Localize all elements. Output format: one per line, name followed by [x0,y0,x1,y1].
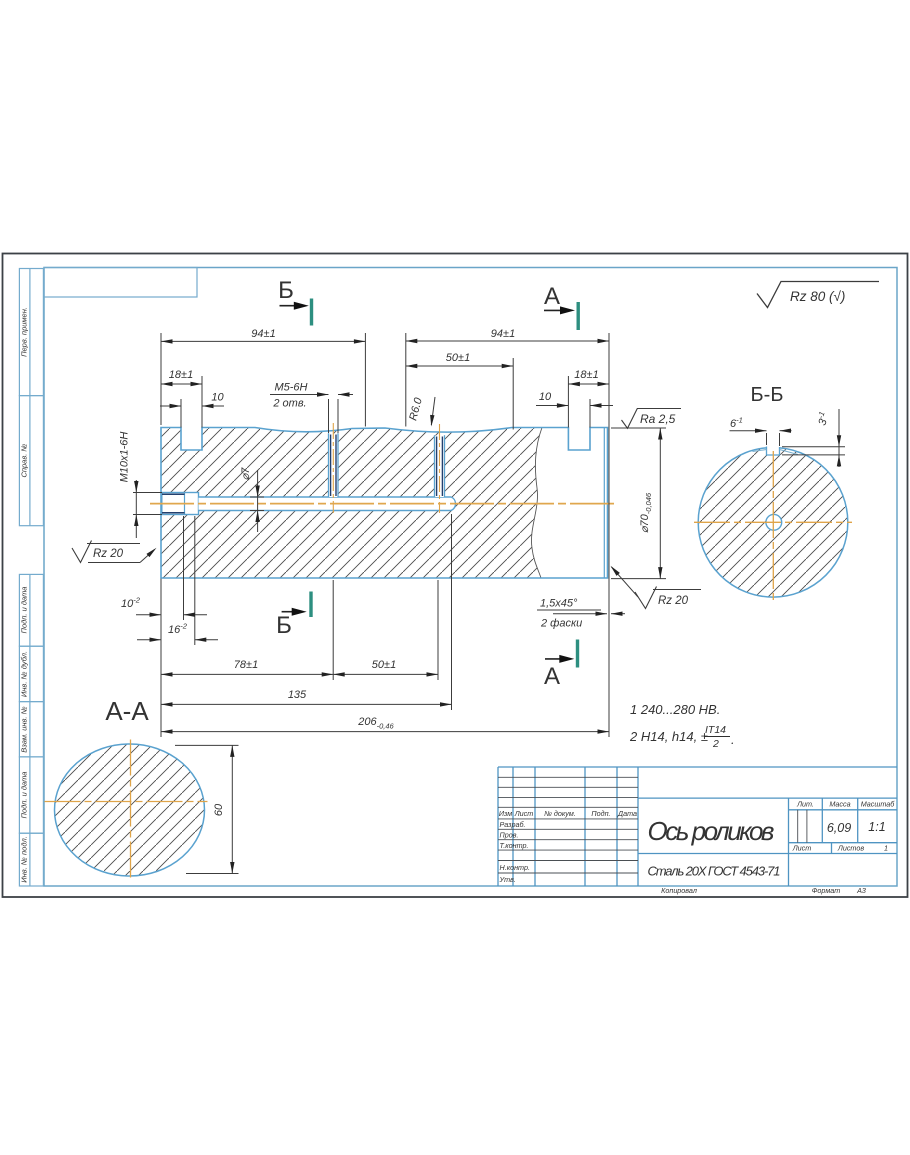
svg-text:Подп. и дата: Подп. и дата [20,772,29,819]
left strip box Справ. № [19,396,43,526]
svg-text:М10х1-6Н: М10х1-6Н [119,432,131,483]
svg-text:2 Н14, h14, ±: 2 Н14, h14, ± [629,729,708,744]
title block grid [498,767,897,886]
svg-text:Н.контр.: Н.контр. [500,863,530,872]
svg-text:Масштаб: Масштаб [861,800,896,809]
svg-text:Масса: Масса [829,800,850,809]
svg-text:135: 135 [288,689,307,701]
svg-text:Rz 80 (√): Rz 80 (√) [790,289,845,304]
svg-text:10: 10 [211,392,224,404]
roughness Rz 20 right [609,564,701,608]
dim 6 [730,409,846,467]
section view А-А [45,696,239,881]
roughness Rz 80 general [757,282,879,308]
roughness Ra 2,5 [622,409,682,429]
dimension arrowheads [134,339,662,734]
section blob [55,744,205,876]
svg-text:2 отв.: 2 отв. [272,398,306,410]
svg-text:А3: А3 [856,886,866,895]
left strip box Подп. и дата (2) [19,757,43,833]
svg-text:.: . [731,732,735,747]
shaft outline [161,428,608,579]
left strip box Подп. и дата (1) [19,574,43,646]
extension lines [160,333,162,425]
svg-text:Подп.: Подп. [591,809,610,818]
axial hole d7 [199,497,456,511]
shaft hatched section [161,428,542,579]
left strip box Инв. № дубл. [19,646,43,701]
svg-text:Б: Б [276,612,292,639]
svg-text:1:1: 1:1 [868,820,885,834]
M5 tapped hole 2 [435,424,445,513]
dimension texts [119,328,654,731]
svg-text:2 фаски: 2 фаски [540,618,582,630]
svg-text:А: А [544,283,560,310]
centerlines [45,801,208,803]
svg-text:Пров.: Пров. [500,831,519,840]
top designation box [44,268,197,298]
svg-text:Инв. № дубл.: Инв. № дубл. [20,651,29,697]
title block small labels [499,800,896,896]
keyway slot [767,445,780,455]
svg-text:Rz 20: Rz 20 [93,548,124,560]
svg-text:78±1: 78±1 [234,659,258,671]
chamfer line right end [603,428,605,579]
svg-text:94±1: 94±1 [491,328,515,340]
main centerline [150,503,614,505]
svg-text:Подп. и дата: Подп. и дата [20,587,29,634]
svg-text:1 240...280 НВ.: 1 240...280 НВ. [630,702,720,717]
svg-text:Т.контр.: Т.контр. [500,841,529,850]
left strip box Перв. примен. [19,269,43,396]
svg-text:Инв. № подл.: Инв. № подл. [20,836,29,883]
svg-text:10: 10 [539,391,552,403]
svg-text:Разраб.: Разраб. [500,820,526,829]
drawing frame [44,268,897,887]
svg-text:Справ. №: Справ. № [20,443,29,477]
left strip box Взам. инв. № [19,702,43,757]
svg-text:Б-Б: Б-Б [751,384,784,406]
section view Б-Б [694,384,852,600]
svg-text:Утв.: Утв. [499,875,516,884]
svg-text:Изм: Изм [499,809,512,818]
svg-text:Взам. инв. №: Взам. инв. № [20,706,29,752]
svg-text:⌀7: ⌀7 [240,467,252,481]
left strip labels [20,307,29,883]
svg-text:Б: Б [278,277,294,304]
svg-text:Rz 20: Rz 20 [658,595,689,607]
svg-text:1: 1 [884,844,888,853]
roughness Rz 20 left [72,541,158,563]
svg-text:1,5х45°: 1,5х45° [540,598,578,610]
section mark А bottom [544,640,578,691]
svg-text:Дата: Дата [617,809,637,818]
svg-text:А: А [544,663,560,690]
section circle [698,448,848,598]
lit cell dividers [797,810,799,843]
svg-text:50±1: 50±1 [446,352,470,364]
M5 tapped hole 1 [329,423,339,513]
svg-text:IT14: IT14 [705,724,726,736]
svg-text:Лит.: Лит. [796,800,814,809]
section mark А top [544,283,578,330]
svg-text:2: 2 [712,738,719,750]
svg-text:50±1: 50±1 [372,659,396,671]
title block row lines [498,777,807,873]
svg-text:Лист: Лист [514,809,534,818]
sheet outer border [3,254,908,898]
svg-text:Копировал: Копировал [661,886,697,895]
svg-text:Лист: Лист [792,844,812,853]
svg-text:№ докум.: № докум. [544,809,576,818]
svg-text:А-А: А-А [105,696,149,726]
svg-text:Ra 2,5: Ra 2,5 [640,412,676,426]
M10 threaded bore [162,493,199,515]
left strip box Инв. № подл. [19,833,43,886]
dimension lines [161,340,365,342]
svg-text:Листов: Листов [837,844,864,853]
centerlines [694,521,852,523]
svg-text:Сталь 20Х ГОСТ 4543-71: Сталь 20Х ГОСТ 4543-71 [648,864,781,879]
svg-text:18±1: 18±1 [169,369,193,381]
svg-text:60: 60 [213,803,225,816]
svg-text:Ось роликов: Ось роликов [648,816,775,846]
center hole [766,514,782,530]
R6 leader [431,397,435,425]
section mark Б bottom [276,592,311,640]
svg-text:94±1: 94±1 [251,328,275,340]
svg-text:Перв. примен.: Перв. примен. [20,307,29,357]
svg-text:Формат: Формат [812,886,841,895]
shaft break line [531,428,542,579]
svg-text:6,09: 6,09 [827,821,851,835]
dim 60 [175,745,239,873]
svg-text:М5-6Н: М5-6Н [274,382,307,394]
section mark Б top [278,277,311,326]
svg-text:18±1: 18±1 [574,369,598,381]
